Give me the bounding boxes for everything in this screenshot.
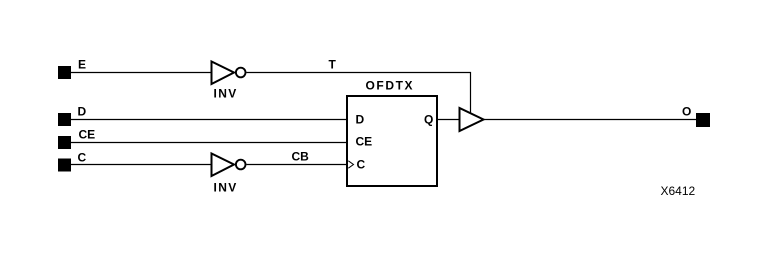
svg-text:INV: INV — [214, 87, 238, 101]
svg-text:T: T — [329, 58, 337, 72]
svg-text:X6412: X6412 — [661, 184, 696, 198]
output buffer (three-state) — [460, 108, 484, 131]
wire Q to output buffer — [437, 119, 460, 121]
svg-text:D: D — [78, 105, 87, 119]
svg-text:E: E — [78, 58, 86, 72]
inverter U1 INV (top) — [212, 62, 246, 85]
wire E pad to inverter — [71, 72, 212, 74]
svg-text:Q: Q — [424, 113, 433, 127]
input pad C — [58, 159, 71, 172]
wire net CB from inverter to flip-flop clock — [247, 164, 348, 166]
output pad O — [696, 113, 710, 127]
input pad CE — [58, 136, 71, 149]
svg-text:C: C — [78, 151, 87, 165]
flip-flop U3 OFDTX body — [347, 96, 437, 186]
wire net T from inverter to buffer control — [247, 73, 471, 115]
wire buffer to output pad — [483, 119, 697, 121]
svg-text:CB: CB — [292, 150, 310, 164]
svg-text:O: O — [682, 105, 691, 119]
input pad D — [58, 113, 71, 126]
svg-text:D: D — [356, 113, 365, 127]
svg-text:C: C — [357, 158, 366, 172]
wire CE pad to flip-flop — [70, 142, 346, 144]
svg-text:OFDTX: OFDTX — [366, 79, 415, 93]
wire C pad to inverter — [70, 164, 212, 166]
wire D pad to flip-flop — [70, 119, 346, 121]
inverter U2 INV (bottom) — [212, 154, 246, 177]
svg-text:CE: CE — [79, 128, 96, 142]
svg-text:CE: CE — [356, 135, 373, 149]
clock input chevron — [348, 161, 353, 168]
svg-text:INV: INV — [214, 181, 238, 195]
input pad E — [58, 66, 71, 79]
